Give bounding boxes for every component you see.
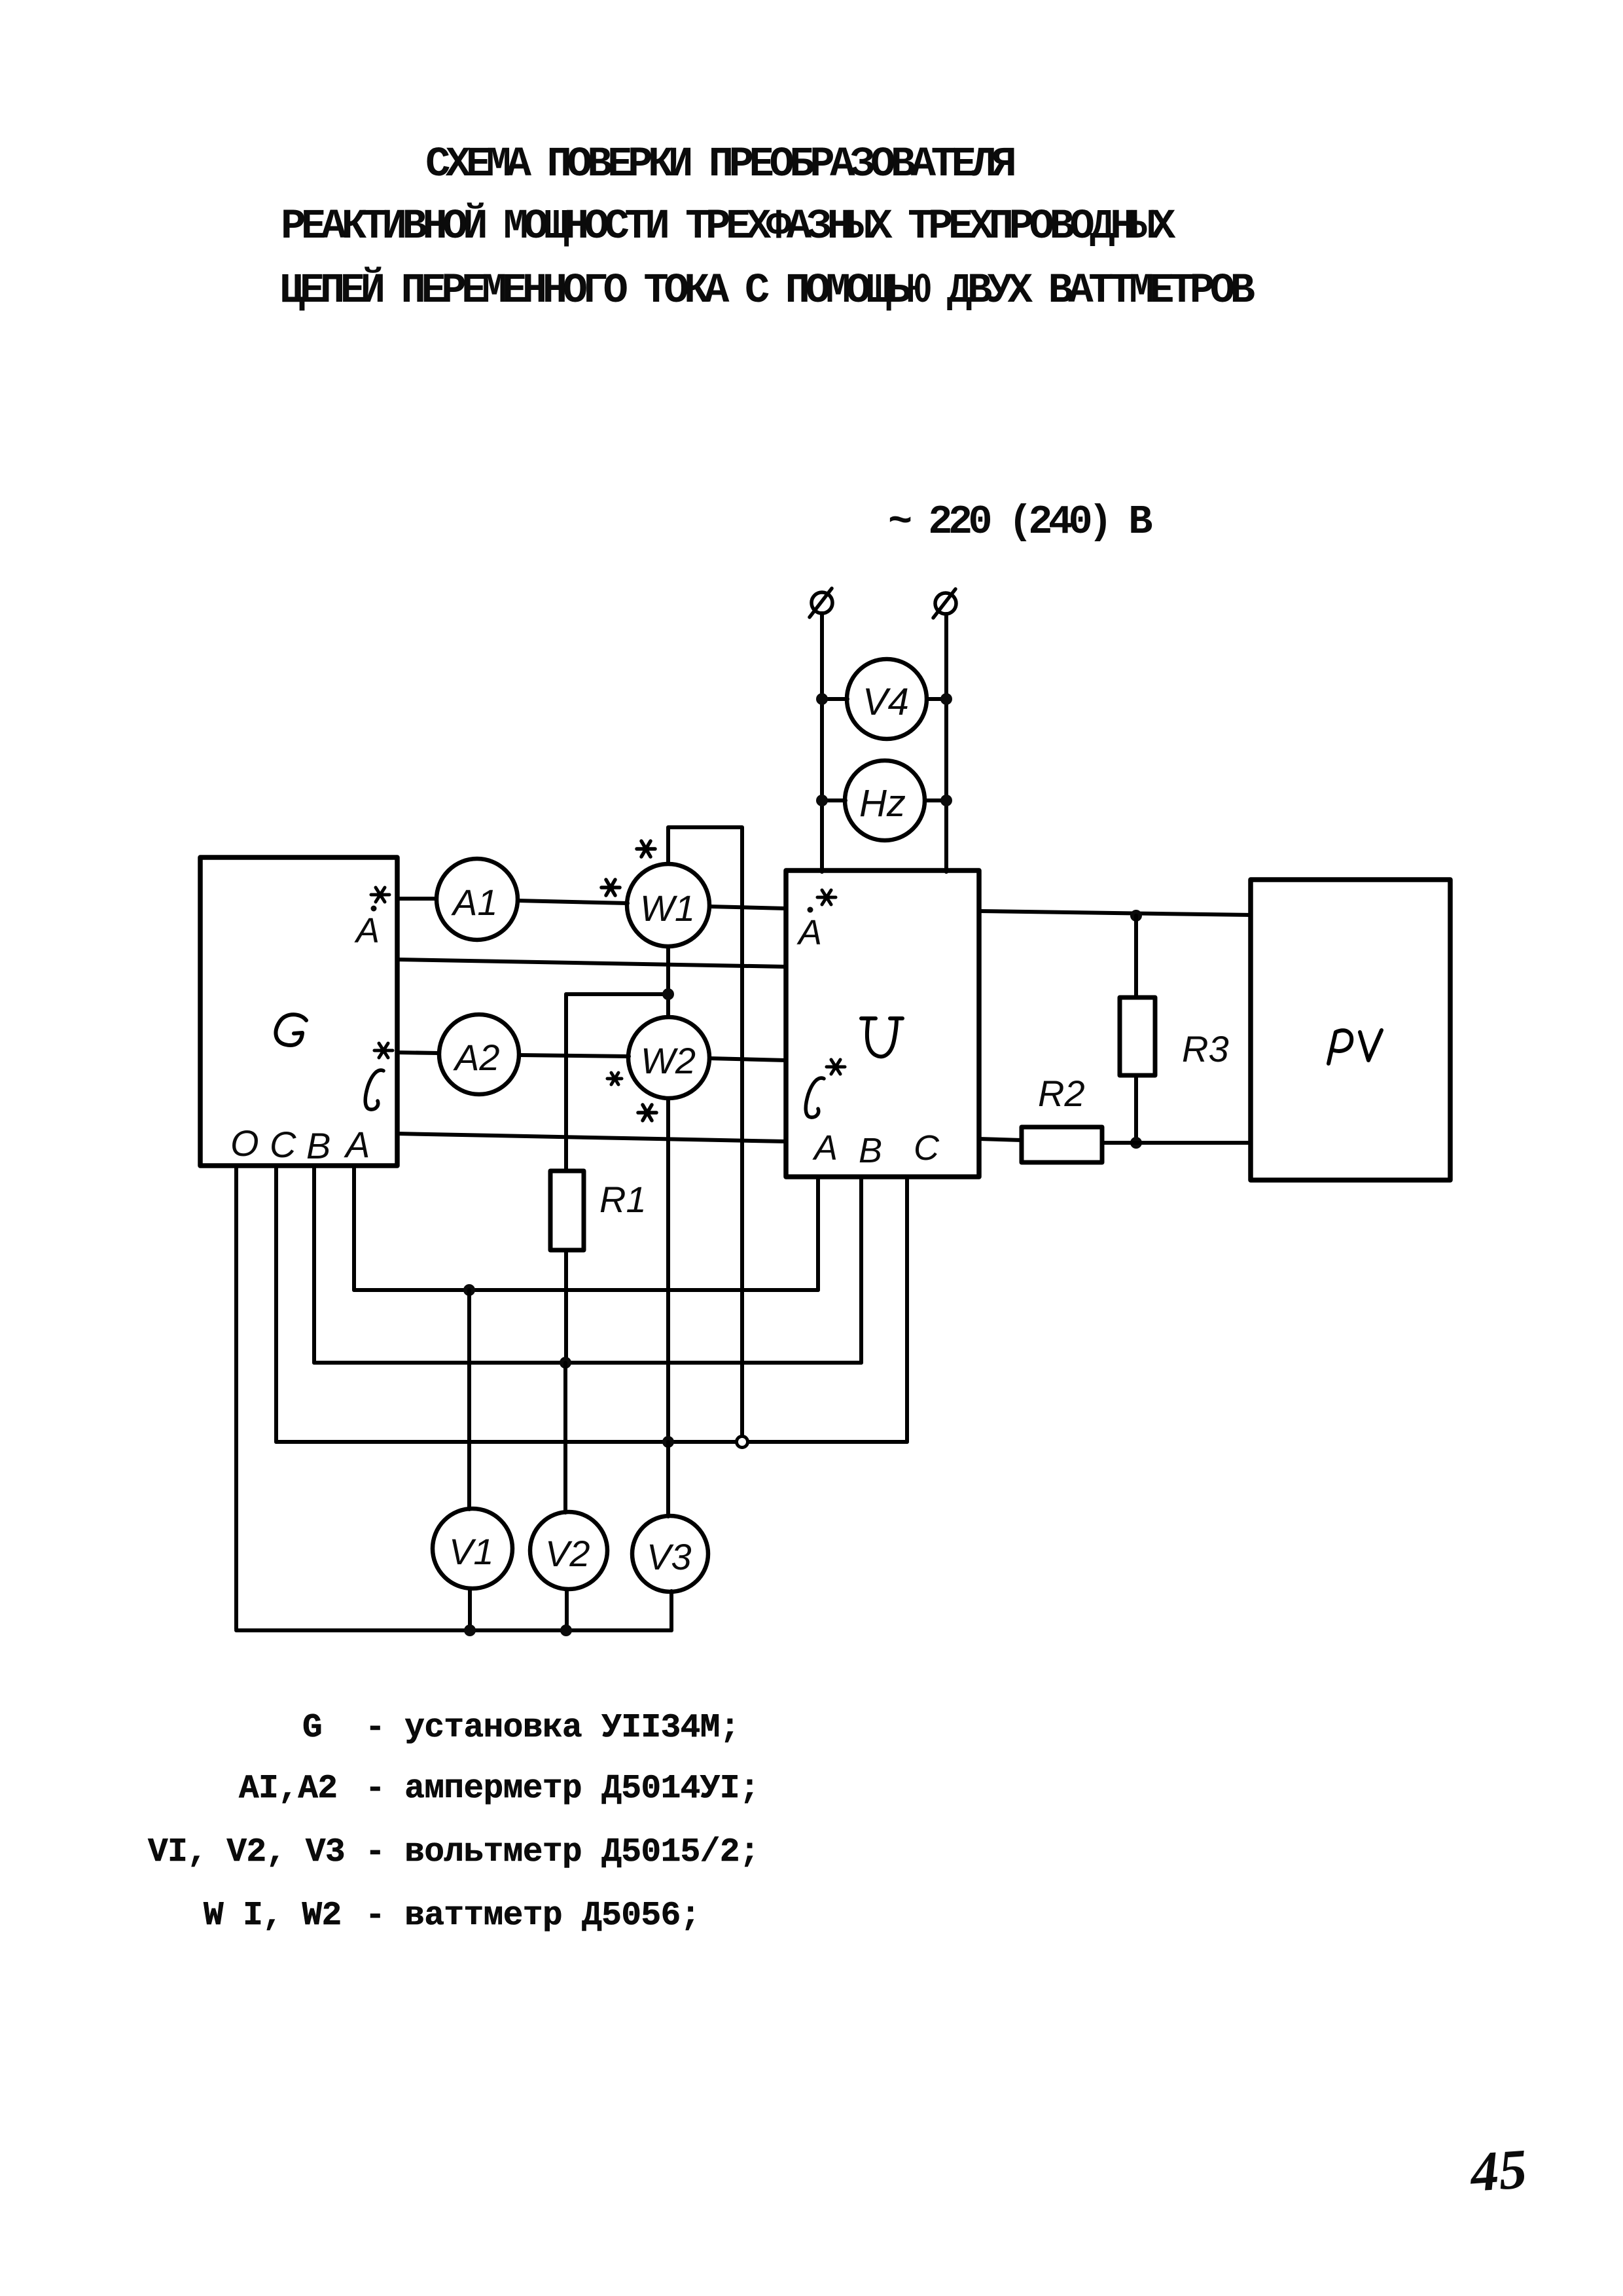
label R2 (1038, 1073, 1085, 1114)
wire G row2 to U (397, 960, 786, 967)
svg-text:C: C (914, 1128, 940, 1168)
wire bus3 phase C (276, 1440, 907, 1444)
wire R1 branch vertical (564, 994, 568, 1171)
wire V4 left stub (822, 697, 847, 701)
svg-text:A: A (354, 911, 380, 950)
resistor R1 (550, 1171, 584, 1250)
svg-text:W2: W2 (641, 1040, 696, 1081)
wire V3 bottom (669, 1591, 673, 1630)
svg-text:A: A (812, 1128, 838, 1168)
terminal L* of U (806, 1060, 845, 1117)
voltmeter V4 (847, 659, 927, 739)
node V4 right (940, 693, 952, 705)
svg-text:V3: V3 (647, 1536, 692, 1577)
wire G terminal A down (352, 1166, 356, 1290)
wire G row4 to U (397, 1134, 786, 1141)
label ~220 (240) V supply (888, 499, 1149, 545)
wire V4 right stub (927, 697, 946, 701)
legend row A1,A2 (239, 1770, 338, 1808)
terminals A B C of U (812, 1128, 940, 1170)
wire U right bottom to R2 (979, 1139, 1022, 1140)
wire supply left vertical (820, 613, 824, 872)
node bus4 V2 (560, 1624, 572, 1636)
wire R3 bottom vertical (1134, 1075, 1138, 1143)
node V4 left (816, 693, 828, 705)
svg-text:R2: R2 (1038, 1073, 1085, 1114)
wire R1 bottom to bus2 (564, 1250, 568, 1363)
svg-text:A: A (796, 913, 822, 952)
wire G.L to A2 (397, 1052, 439, 1053)
wire R3 top vertical (1134, 916, 1138, 997)
wire V2 bottom (565, 1589, 569, 1630)
node bus1 V1 junction (463, 1284, 475, 1296)
resistor R2 (1022, 1127, 1102, 1162)
wattmeter W1 (627, 864, 709, 946)
node R3 top junction (1130, 910, 1142, 922)
wire bus4 neutral (236, 1628, 671, 1632)
wire bus3 up to U.C (905, 1177, 909, 1442)
legend row G (302, 1710, 322, 1747)
svg-text:V2: V2 (545, 1533, 590, 1574)
label PV (1329, 1030, 1382, 1064)
resistor R3 (1120, 997, 1155, 1075)
asterisk at W1 voltage terminal (637, 841, 655, 857)
title line 2 (281, 204, 1171, 251)
terminals O C B A of G (230, 1122, 370, 1166)
wire G.A to A1 (397, 897, 437, 901)
asterisk at W2 current input (607, 1073, 622, 1085)
svg-text:A: A (344, 1124, 370, 1165)
wire W1 to U.A (709, 906, 786, 908)
page number 45 (1469, 2136, 1529, 2205)
title line 3 (279, 268, 1251, 315)
wire A1 to W1 (518, 901, 628, 903)
svg-text:O: O (230, 1122, 259, 1164)
label U (861, 1018, 902, 1056)
label R3 (1182, 1028, 1229, 1069)
wire W2 to U.L (710, 1058, 786, 1060)
node bus2 V2 junction (560, 1357, 571, 1369)
node bus3 W1 loop junction (737, 1437, 748, 1448)
title line 1 (425, 141, 1012, 188)
voltmeter V2 (530, 1512, 607, 1589)
svg-text:A2: A2 (453, 1037, 500, 1078)
supply terminal left (810, 588, 832, 617)
supply terminal right (933, 589, 956, 618)
wire W1 bottom to W2 top (666, 946, 670, 1017)
box U (converter under test) (786, 870, 979, 1177)
wire G terminal O down (234, 1166, 238, 1629)
voltmeter V1 (433, 1509, 512, 1588)
terminal A* of G (354, 888, 389, 950)
wire G terminal B down (312, 1166, 316, 1363)
svg-text:V4: V4 (863, 681, 909, 723)
box PV (reference voltmeter) (1251, 880, 1450, 1180)
wire bus1 phase A (354, 1288, 818, 1292)
node Hz right (940, 795, 952, 806)
node bus4 V1 (464, 1624, 476, 1636)
wire supply right vertical (944, 614, 948, 872)
svg-text:A1: A1 (451, 882, 498, 923)
svg-text:B: B (859, 1131, 882, 1170)
svg-text:C: C (270, 1124, 296, 1165)
ammeter A2 (439, 1014, 519, 1094)
svg-text:R3: R3 (1182, 1028, 1229, 1069)
wire U right top to PV (979, 911, 1251, 915)
frequency meter Hz (845, 761, 925, 840)
wire G terminal C down (274, 1166, 278, 1442)
wire W2 bottom vertical (666, 1098, 670, 1442)
node bus3 W2 junction (662, 1436, 674, 1448)
node R1 branch junction (662, 988, 674, 1000)
svg-text:B: B (306, 1125, 330, 1166)
svg-text:W1: W1 (640, 888, 695, 929)
voltmeter V3 (632, 1516, 708, 1592)
asterisk at W1 current input (601, 880, 620, 895)
svg-text:Hz: Hz (859, 782, 906, 825)
wire R2 to PV (1102, 1141, 1251, 1145)
wire Hz left stub (822, 798, 846, 802)
wire A2 to W2 (519, 1055, 629, 1056)
wire V1 bottom (468, 1588, 472, 1630)
wire R1 branch horizontal (566, 992, 668, 996)
wire bus2 up to U.B (859, 1177, 863, 1363)
node Hz left (816, 795, 828, 806)
terminal L* of G (365, 1043, 393, 1109)
legend row V1,V2,V3 (148, 1834, 345, 1871)
box G (installation U1134M) (200, 857, 397, 1166)
label G (276, 1014, 306, 1045)
node R3 bottom junction (1130, 1137, 1142, 1149)
wire V2 top (563, 1363, 567, 1513)
svg-text:V1: V1 (449, 1531, 494, 1572)
wattmeter W2 (628, 1017, 709, 1098)
asterisk at W2 voltage terminal (638, 1105, 656, 1121)
wire bus2 phase B (314, 1361, 861, 1365)
ammeter A1 (437, 859, 518, 940)
wire V1 top (467, 1290, 471, 1509)
wire V3 top (666, 1442, 670, 1516)
terminal A* of U (796, 890, 836, 952)
wire W1 voltage loop (668, 827, 742, 1442)
wire Hz right stub (925, 798, 946, 802)
legend row W1,W2 (204, 1897, 342, 1935)
svg-text:R1: R1 (599, 1179, 647, 1220)
label R1 (599, 1179, 647, 1220)
wire bus1 up to U.A (816, 1177, 820, 1290)
